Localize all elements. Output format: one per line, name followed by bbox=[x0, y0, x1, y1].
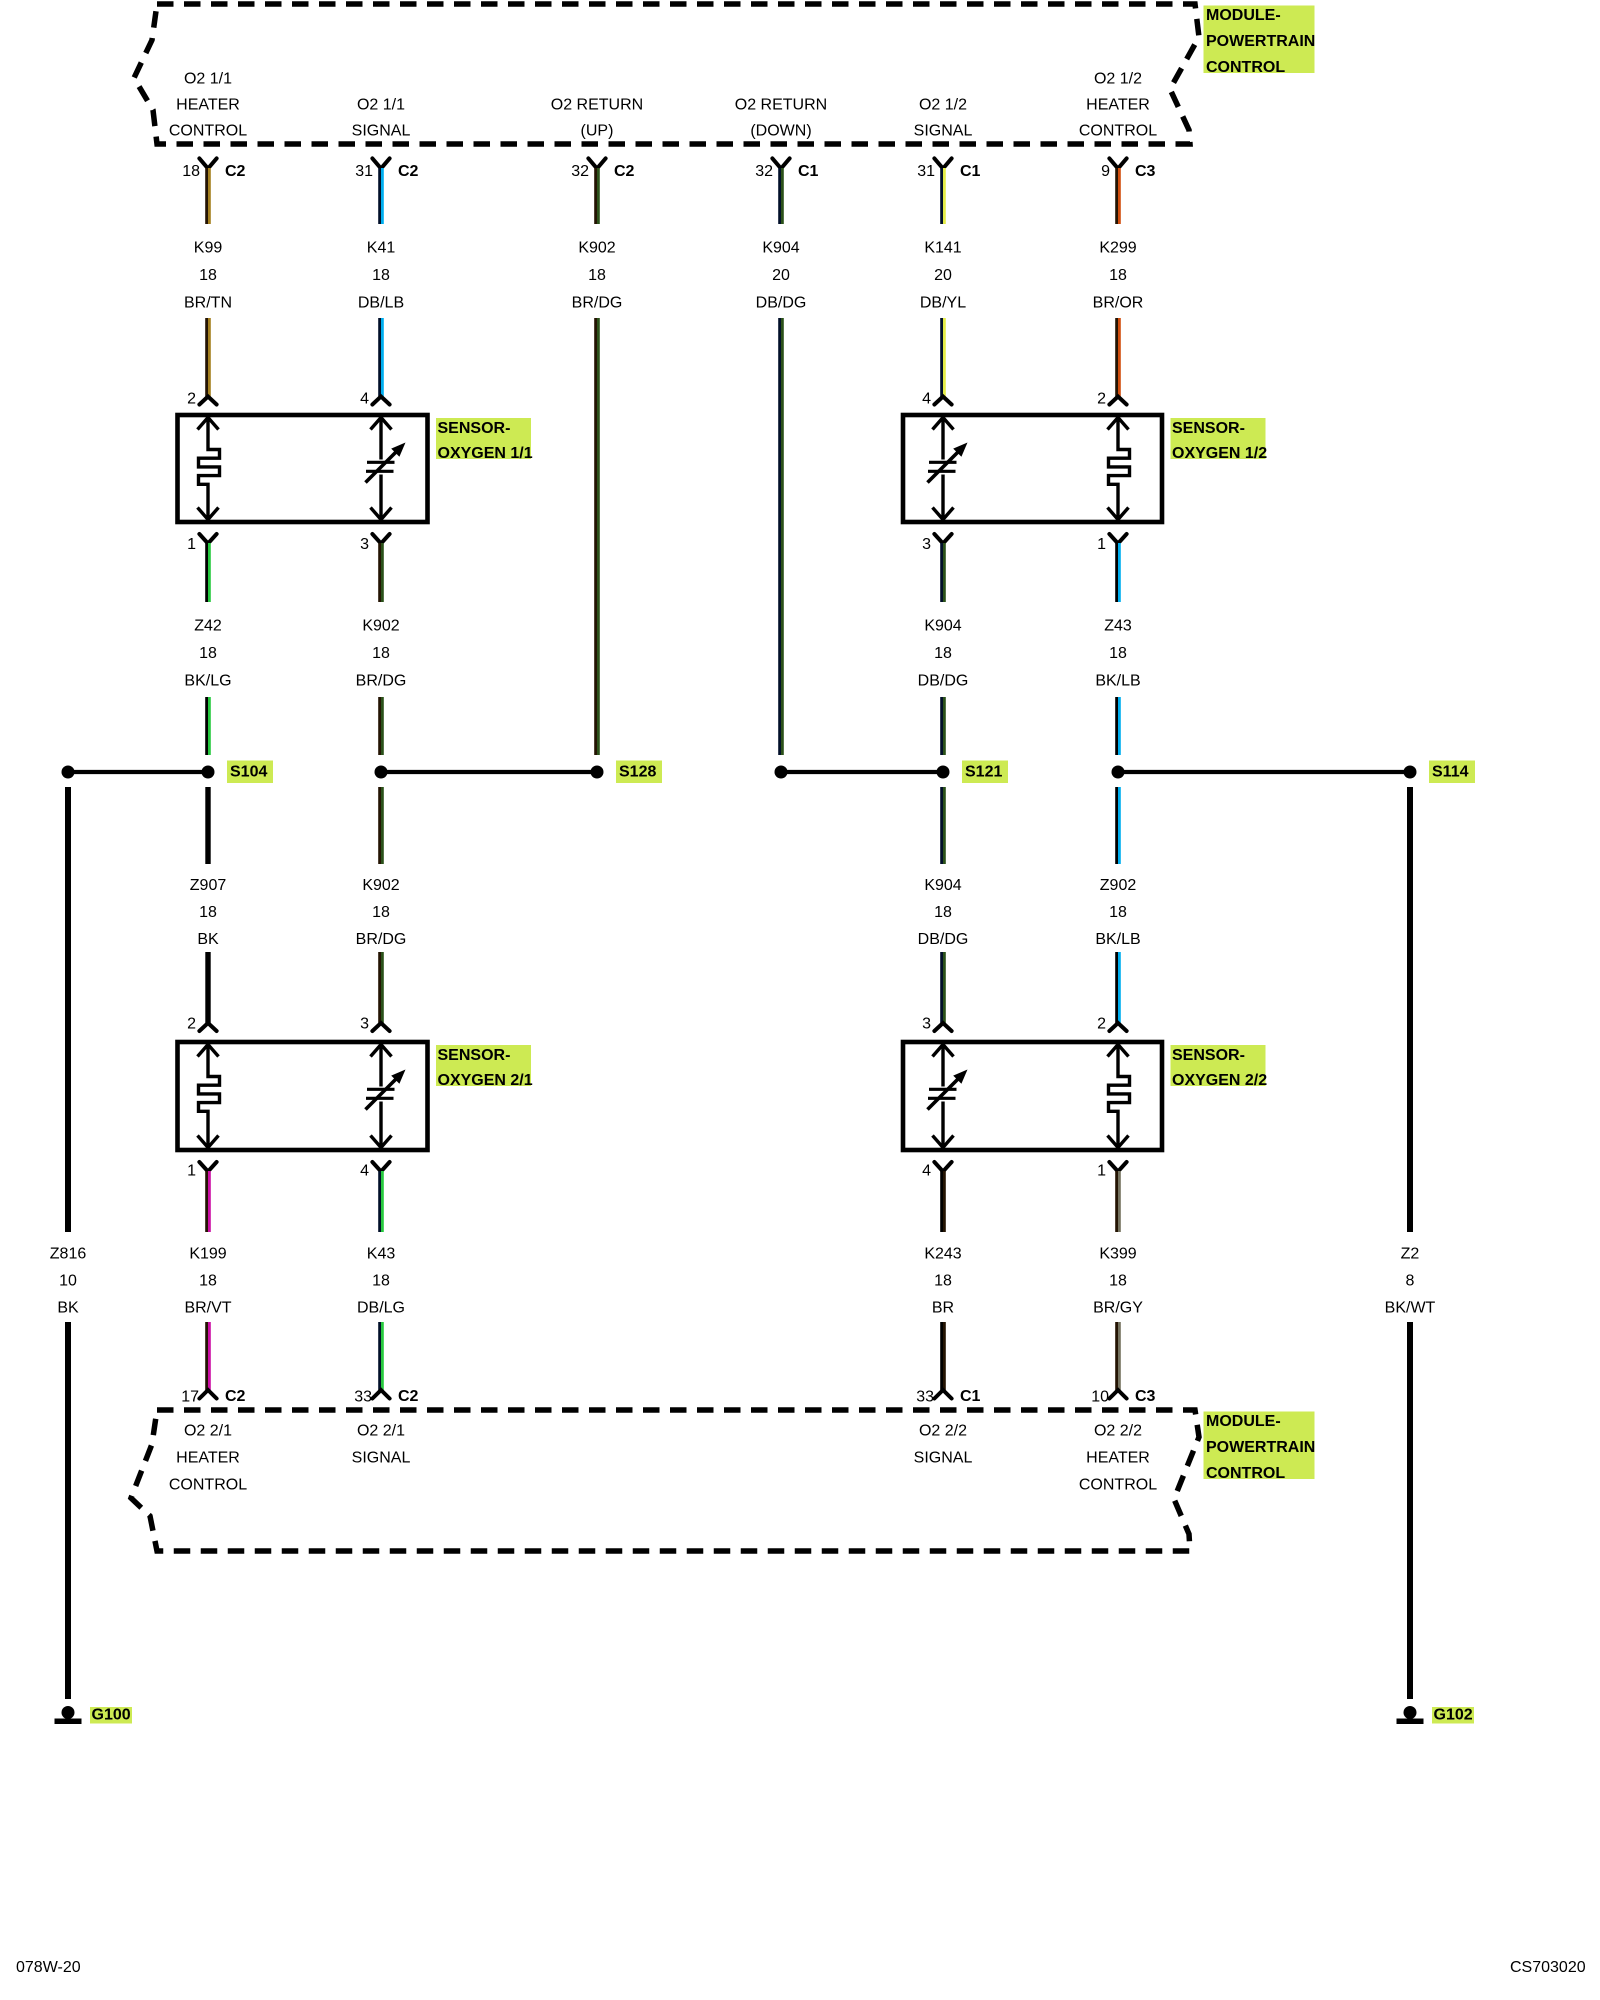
wire Z43 (label to splice S114 junction) bbox=[1115, 697, 1121, 755]
heater element inside SENSOR-OXYGEN 1/1 bbox=[198, 418, 220, 520]
svg-text:O2 2/2: O2 2/2 bbox=[919, 1423, 967, 1440]
svg-text:BR/DG: BR/DG bbox=[356, 931, 407, 948]
svg-text:K243: K243 bbox=[924, 1246, 961, 1263]
label: SENSOR-OXYGEN 1/1 (highlighted) bbox=[436, 418, 533, 462]
svg-text:BR/TN: BR/TN bbox=[184, 295, 232, 312]
pin 3 (bottom) of SENSOR-OXYGEN 1/1 bbox=[360, 534, 390, 553]
svg-text:MODULE-: MODULE- bbox=[1206, 7, 1281, 24]
pin 1 (bottom) of SENSOR-OXYGEN 1/2 bbox=[1097, 534, 1127, 553]
label: SENSOR-OXYGEN 2/2 (highlighted) bbox=[1171, 1045, 1268, 1089]
wire Z907 18 BK (S104 down to label) bbox=[205, 787, 210, 864]
svg-text:(UP): (UP) bbox=[581, 123, 614, 140]
value label: Z902 18 BK/LB bbox=[1095, 877, 1140, 948]
svg-text:C2: C2 bbox=[398, 1388, 419, 1405]
svg-text:18: 18 bbox=[934, 645, 952, 662]
wire Z907 (label to sensor O2 2/1 pin 2) bbox=[205, 952, 210, 1024]
svg-text:HEATER: HEATER bbox=[1086, 97, 1150, 114]
wire Z42 18 BK/LG stub (sensor 1/1 pin 1 to label) bbox=[205, 543, 211, 602]
junction dot: splice S121 bbox=[937, 766, 950, 779]
svg-text:SENSOR-: SENSOR- bbox=[1172, 1047, 1245, 1064]
wire Z2 8 BK/WT (S114 down to label) bbox=[1407, 787, 1413, 1232]
wire: splice bus S121 (horizontal) bbox=[781, 770, 943, 774]
svg-text:3: 3 bbox=[922, 536, 931, 553]
svg-text:Z816: Z816 bbox=[50, 1246, 87, 1263]
connector pin 10 C3 (bottom module, column 6) bbox=[1091, 1388, 1155, 1406]
svg-text:K904: K904 bbox=[924, 618, 961, 635]
pin 3 (bottom) of SENSOR-OXYGEN 1/2 bbox=[922, 534, 952, 553]
node label: bottom module pin function, column 2 bbox=[352, 1423, 411, 1467]
svg-text:DB/DG: DB/DG bbox=[918, 931, 969, 948]
svg-text:18: 18 bbox=[1109, 1273, 1127, 1290]
svg-text:33: 33 bbox=[916, 1389, 934, 1406]
value label: Z2 8 BK/WT bbox=[1385, 1246, 1436, 1317]
pin 4 (bottom) of SENSOR-OXYGEN 2/1 bbox=[360, 1162, 390, 1180]
wire K141 (label to sensor O2 1/2 pin 4) bbox=[940, 318, 946, 397]
junction dot on K902 at splice bus bbox=[375, 766, 388, 779]
wire Z42 (label to splice S104) bbox=[205, 697, 211, 755]
connector pin 9 C3 (top module, column 6) bbox=[1101, 158, 1155, 180]
svg-text:17: 17 bbox=[181, 1389, 199, 1406]
svg-text:18: 18 bbox=[1109, 904, 1127, 921]
wire K902 18 BR/DG stub (sensor 1/1 pin 3 to label) bbox=[378, 543, 384, 602]
svg-text:18: 18 bbox=[372, 267, 390, 284]
svg-text:BR: BR bbox=[932, 1300, 954, 1317]
svg-text:K141: K141 bbox=[924, 240, 961, 257]
svg-text:18: 18 bbox=[372, 904, 390, 921]
svg-text:Z902: Z902 bbox=[1100, 877, 1137, 894]
value label: K299 18 BR/OR bbox=[1093, 240, 1144, 312]
value label: K41 18 DB/LB bbox=[358, 240, 404, 312]
wire K99 18 BR/TN stub (pin 18 C2 to label) bbox=[205, 168, 211, 224]
svg-text:POWERTRAIN: POWERTRAIN bbox=[1206, 33, 1315, 50]
svg-text:C2: C2 bbox=[614, 163, 635, 180]
svg-text:K43: K43 bbox=[367, 1246, 396, 1263]
svg-text:1: 1 bbox=[1097, 536, 1106, 553]
wire Z816 10 BK (S104 down to label) bbox=[65, 787, 71, 1232]
svg-text:18: 18 bbox=[199, 904, 217, 921]
connector pin 32 C2 (top module, column 3) bbox=[571, 158, 634, 180]
wire: splice bus S128 (horizontal) bbox=[381, 770, 597, 774]
wire Z816 (label down to ground G100) bbox=[65, 1322, 71, 1699]
label: MODULE-POWERTRAIN CONTROL (bottom right, highlighted) bbox=[1204, 1412, 1316, 1483]
svg-text:1: 1 bbox=[187, 536, 196, 553]
svg-text:S114: S114 bbox=[1432, 764, 1469, 781]
svg-text:18: 18 bbox=[934, 1273, 952, 1290]
svg-text:33: 33 bbox=[354, 1389, 372, 1406]
svg-text:Z42: Z42 bbox=[194, 618, 222, 635]
connector pin 33 C2 (bottom module, column 2) bbox=[354, 1388, 418, 1406]
junction dot: splice S104 bbox=[202, 766, 215, 779]
wire K902 (label down to splice S128) bbox=[594, 318, 600, 755]
svg-text:K902: K902 bbox=[362, 618, 399, 635]
svg-text:HEATER: HEATER bbox=[1086, 1450, 1150, 1467]
node G102 label (highlighted) bbox=[1432, 1707, 1474, 1724]
junction dot at Z816 / S104 bbox=[62, 766, 75, 779]
wire K399 (label to pin 10 C3) bbox=[1115, 1322, 1121, 1391]
wire K243 (label to pin 33 C1) bbox=[940, 1322, 946, 1391]
wire K902 18 BR/DG stub (pin 32 C2 to label) bbox=[594, 168, 600, 224]
svg-text:S128: S128 bbox=[619, 764, 656, 781]
connector pin 17 C2 (bottom module, column 1) bbox=[181, 1388, 245, 1406]
label: MODULE-POWERTRAIN CONTROL (top right, highlighted) bbox=[1204, 6, 1316, 77]
svg-text:C1: C1 bbox=[960, 1388, 981, 1405]
svg-text:3: 3 bbox=[360, 1016, 369, 1033]
node label: bottom module pin function, column 6 bbox=[1079, 1423, 1157, 1494]
connector pin 18 C2 (top module, column 1) bbox=[182, 158, 245, 180]
svg-text:BR/DG: BR/DG bbox=[572, 295, 623, 312]
svg-text:SENSOR-: SENSOR- bbox=[438, 420, 511, 437]
svg-text:CS703020: CS703020 bbox=[1510, 1959, 1586, 1976]
svg-text:18: 18 bbox=[182, 163, 200, 180]
sensor B4: SENSOR-OXYGEN 2/2 (box) bbox=[903, 1042, 1162, 1150]
pin 2 (top) of SENSOR-OXYGEN 2/2 bbox=[1097, 1016, 1127, 1033]
svg-text:1: 1 bbox=[1097, 1163, 1106, 1180]
svg-text:BK/LB: BK/LB bbox=[1095, 673, 1140, 690]
node label: top module pin function, column 3 bbox=[551, 97, 643, 140]
svg-text:(DOWN): (DOWN) bbox=[750, 123, 811, 140]
value label: K902 18 BR/DG bbox=[356, 618, 407, 690]
svg-text:10: 10 bbox=[1091, 1389, 1109, 1406]
pin 2 (top) of SENSOR-OXYGEN 1/2 bbox=[1097, 391, 1127, 408]
wire K199 (label to pin 17 C2) bbox=[205, 1322, 211, 1391]
value label: K99 18 BR/TN bbox=[184, 240, 232, 312]
svg-text:C2: C2 bbox=[225, 1388, 246, 1405]
value label: K904 20 DB/DG bbox=[756, 240, 807, 312]
node S104 label (highlighted) bbox=[227, 761, 273, 784]
svg-text:CONTROL: CONTROL bbox=[1079, 1477, 1157, 1494]
wire K904 20 DB/DG stub (pin 32 C1 to label) bbox=[778, 168, 784, 224]
node label: bottom module pin function, column 1 bbox=[169, 1423, 247, 1494]
junction dot on K904 at splice bus bbox=[775, 766, 788, 779]
value label: Z816 10 BK bbox=[50, 1246, 87, 1317]
sensor B3: SENSOR-OXYGEN 2/1 (box) bbox=[178, 1042, 428, 1150]
svg-text:18: 18 bbox=[199, 645, 217, 662]
svg-text:32: 32 bbox=[755, 163, 773, 180]
svg-text:G102: G102 bbox=[1434, 1707, 1473, 1724]
svg-text:SIGNAL: SIGNAL bbox=[352, 123, 411, 140]
node label: top module pin function, column 4 bbox=[735, 97, 827, 140]
variable sense element inside SENSOR-OXYGEN 1/2 bbox=[928, 418, 968, 520]
svg-text:18: 18 bbox=[588, 267, 606, 284]
wire K299 (label to sensor O2 1/2 pin 2) bbox=[1115, 318, 1121, 397]
junction dot: splice S114 bbox=[1404, 766, 1417, 779]
wire K299 18 BR/OR stub (pin 9 C3 to label) bbox=[1115, 168, 1121, 224]
svg-text:BK: BK bbox=[197, 931, 219, 948]
svg-text:31: 31 bbox=[355, 163, 373, 180]
svg-text:3: 3 bbox=[360, 536, 369, 553]
svg-text:18: 18 bbox=[199, 1273, 217, 1290]
svg-text:O2 RETURN: O2 RETURN bbox=[551, 97, 643, 114]
value label: K399 18 BR/GY bbox=[1093, 1246, 1143, 1317]
wire K199 18 BR/VT stub (sensor 2/1 pin 1 to label) bbox=[205, 1171, 211, 1232]
node label: top module pin function, column 6 bbox=[1079, 71, 1157, 140]
wire Z902 18 BK/LB (S114 junction down to label) bbox=[1115, 787, 1121, 864]
svg-text:HEATER: HEATER bbox=[176, 1450, 240, 1467]
svg-text:C1: C1 bbox=[960, 163, 981, 180]
svg-text:2: 2 bbox=[187, 391, 196, 408]
svg-text:K299: K299 bbox=[1099, 240, 1136, 257]
svg-text:SIGNAL: SIGNAL bbox=[352, 1450, 411, 1467]
svg-text:SIGNAL: SIGNAL bbox=[914, 123, 973, 140]
svg-text:3: 3 bbox=[922, 1016, 931, 1033]
svg-text:10: 10 bbox=[59, 1273, 77, 1290]
wire K902 18 BR/DG (S128 junction down to label) bbox=[378, 787, 384, 864]
svg-text:BR/OR: BR/OR bbox=[1093, 295, 1144, 312]
svg-text:OXYGEN 1/2: OXYGEN 1/2 bbox=[1172, 445, 1267, 462]
svg-text:4: 4 bbox=[360, 391, 369, 408]
value label: K902 18 BR/DG (lower) bbox=[356, 877, 407, 948]
svg-text:O2 2/1: O2 2/1 bbox=[184, 1423, 232, 1440]
svg-text:DB/LG: DB/LG bbox=[357, 1300, 405, 1317]
wire Z2 (label down to ground G102) bbox=[1407, 1322, 1413, 1699]
svg-text:4: 4 bbox=[360, 1163, 369, 1180]
svg-text:K199: K199 bbox=[189, 1246, 226, 1263]
pin 3 (top) of SENSOR-OXYGEN 2/2 bbox=[922, 1016, 952, 1033]
variable sense element inside SENSOR-OXYGEN 1/1 bbox=[366, 418, 406, 520]
svg-text:O2 2/1: O2 2/1 bbox=[357, 1423, 405, 1440]
value label: K904 18 DB/DG (lower) bbox=[918, 877, 969, 948]
heater element inside SENSOR-OXYGEN 2/2 bbox=[1108, 1045, 1130, 1148]
svg-text:MODULE-: MODULE- bbox=[1206, 1413, 1281, 1430]
svg-text:BR/GY: BR/GY bbox=[1093, 1300, 1143, 1317]
svg-text:20: 20 bbox=[934, 267, 952, 284]
svg-text:BK/LG: BK/LG bbox=[184, 673, 231, 690]
svg-text:18: 18 bbox=[372, 645, 390, 662]
svg-text:C3: C3 bbox=[1135, 163, 1156, 180]
svg-text:K904: K904 bbox=[762, 240, 799, 257]
svg-text:O2 2/2: O2 2/2 bbox=[1094, 1423, 1142, 1440]
node label: top module pin function, column 5 bbox=[914, 97, 973, 140]
junction dot: splice S128 bbox=[591, 766, 604, 779]
svg-text:18: 18 bbox=[1109, 267, 1127, 284]
value label: Z43 18 BK/LB bbox=[1095, 618, 1140, 690]
svg-text:CONTROL: CONTROL bbox=[169, 123, 247, 140]
svg-text:O2 1/2: O2 1/2 bbox=[919, 97, 967, 114]
svg-text:18: 18 bbox=[372, 1273, 390, 1290]
connector pin 31 C2 (top module, column 2) bbox=[355, 158, 418, 180]
wire: splice bus S114 (horizontal) bbox=[1118, 770, 1410, 774]
svg-text:Z2: Z2 bbox=[1401, 1246, 1420, 1263]
value label: K902 18 BR/DG bbox=[572, 240, 623, 312]
value label: Z907 18 BK bbox=[190, 877, 227, 948]
wire K904 (label down to splice S121) bbox=[778, 318, 784, 755]
svg-text:SENSOR-: SENSOR- bbox=[1172, 420, 1245, 437]
junction dot on Z43 at splice bus bbox=[1112, 766, 1125, 779]
svg-text:CONTROL: CONTROL bbox=[1206, 59, 1285, 76]
pin 4 (top) of SENSOR-OXYGEN 1/2 bbox=[922, 391, 952, 408]
variable sense element inside SENSOR-OXYGEN 2/2 bbox=[928, 1045, 968, 1148]
pin 4 (top) of SENSOR-OXYGEN 1/1 bbox=[360, 391, 390, 408]
pin 4 (bottom) of SENSOR-OXYGEN 2/2 bbox=[922, 1162, 952, 1180]
pin 1 (bottom) of SENSOR-OXYGEN 1/1 bbox=[187, 534, 217, 553]
svg-text:DB/YL: DB/YL bbox=[920, 295, 966, 312]
svg-text:32: 32 bbox=[571, 163, 589, 180]
svg-text:DB/DG: DB/DG bbox=[918, 673, 969, 690]
connector pin 33 C1 (bottom module, column 5) bbox=[916, 1388, 980, 1406]
wire K904 18 DB/DG stub (sensor 1/2 pin 3 to label) bbox=[940, 543, 946, 602]
wire K243 18 BR stub (sensor 2/2 pin 4 to label) bbox=[940, 1171, 946, 1232]
svg-text:2: 2 bbox=[1097, 391, 1106, 408]
svg-text:BK/LB: BK/LB bbox=[1095, 931, 1140, 948]
variable sense element inside SENSOR-OXYGEN 2/1 bbox=[366, 1045, 406, 1148]
node label: top module pin function, column 2 bbox=[352, 97, 411, 140]
value label: K141 20 DB/YL bbox=[920, 240, 966, 312]
svg-text:O2 1/2: O2 1/2 bbox=[1094, 71, 1142, 88]
wire K41 (label to sensor O2 1/1 pin 4) bbox=[378, 318, 384, 397]
label: SENSOR-OXYGEN 2/1 (highlighted) bbox=[436, 1045, 533, 1089]
pin 2 (top) of SENSOR-OXYGEN 2/1 bbox=[187, 1016, 217, 1033]
value label: K199 18 BR/VT bbox=[184, 1246, 231, 1317]
svg-text:O2 RETURN: O2 RETURN bbox=[735, 97, 827, 114]
ground G102 symbol bbox=[1397, 1706, 1424, 1724]
svg-text:8: 8 bbox=[1406, 1273, 1415, 1290]
node S114 label (highlighted) bbox=[1429, 761, 1475, 784]
pin 1 (bottom) of SENSOR-OXYGEN 2/2 bbox=[1097, 1162, 1127, 1180]
svg-text:BR/VT: BR/VT bbox=[184, 1300, 231, 1317]
wire Z902 (label to sensor O2 2/2 pin 2) bbox=[1115, 952, 1121, 1024]
svg-text:O2 1/1: O2 1/1 bbox=[357, 97, 405, 114]
module U1: MODULE-POWERTRAIN CONTROL (top connector block, dashed outline) bbox=[134, 4, 1199, 144]
module U1: MODULE-POWERTRAIN CONTROL (bottom connector block, dashed outline) bbox=[131, 1410, 1199, 1551]
svg-text:K99: K99 bbox=[194, 240, 223, 257]
svg-text:CONTROL: CONTROL bbox=[169, 1477, 247, 1494]
svg-text:DB/DG: DB/DG bbox=[756, 295, 807, 312]
wire K399 18 BR/GY stub (sensor 2/2 pin 1 to label) bbox=[1115, 1171, 1121, 1232]
ground G100 symbol bbox=[55, 1706, 82, 1724]
svg-text:BR/DG: BR/DG bbox=[356, 673, 407, 690]
svg-text:CONTROL: CONTROL bbox=[1206, 1465, 1285, 1482]
svg-text:BK: BK bbox=[57, 1300, 79, 1317]
node G100 label (highlighted) bbox=[90, 1707, 132, 1724]
svg-text:S121: S121 bbox=[965, 764, 1002, 781]
svg-text:DB/LB: DB/LB bbox=[358, 295, 404, 312]
svg-text:K904: K904 bbox=[924, 877, 961, 894]
svg-text:OXYGEN 2/1: OXYGEN 2/1 bbox=[438, 1072, 533, 1089]
heater element inside SENSOR-OXYGEN 2/1 bbox=[198, 1045, 220, 1148]
value label: K904 18 DB/DG bbox=[918, 618, 969, 690]
svg-text:CONTROL: CONTROL bbox=[1079, 123, 1157, 140]
sensor B2: SENSOR-OXYGEN 1/2 (box) bbox=[903, 415, 1162, 522]
svg-text:C2: C2 bbox=[225, 163, 246, 180]
wire K904 (label to sensor O2 2/2 pin 3) bbox=[940, 952, 946, 1024]
pin 1 (bottom) of SENSOR-OXYGEN 2/1 bbox=[187, 1162, 217, 1180]
svg-text:BK/WT: BK/WT bbox=[1385, 1300, 1436, 1317]
svg-text:SIGNAL: SIGNAL bbox=[914, 1450, 973, 1467]
svg-text:20: 20 bbox=[772, 267, 790, 284]
node S121 label (highlighted) bbox=[962, 761, 1008, 784]
svg-text:18: 18 bbox=[1109, 645, 1127, 662]
sensor B1: SENSOR-OXYGEN 1/1 (box) bbox=[178, 415, 428, 522]
svg-text:K902: K902 bbox=[578, 240, 615, 257]
svg-text:078W-20: 078W-20 bbox=[16, 1959, 81, 1976]
svg-text:C2: C2 bbox=[398, 163, 419, 180]
svg-text:18: 18 bbox=[934, 904, 952, 921]
svg-text:G100: G100 bbox=[92, 1707, 131, 1724]
wire K904 (label to splice S121 junction) bbox=[940, 697, 946, 755]
node label: bottom module pin function, column 5 bbox=[914, 1423, 973, 1467]
svg-text:1: 1 bbox=[187, 1163, 196, 1180]
svg-text:Z43: Z43 bbox=[1104, 618, 1132, 635]
svg-text:OXYGEN 1/1: OXYGEN 1/1 bbox=[438, 445, 533, 462]
svg-text:K399: K399 bbox=[1099, 1246, 1136, 1263]
svg-text:K41: K41 bbox=[367, 240, 396, 257]
label: SENSOR-OXYGEN 1/2 (highlighted) bbox=[1171, 418, 1268, 462]
svg-text:S104: S104 bbox=[230, 764, 267, 781]
svg-text:K902: K902 bbox=[362, 877, 399, 894]
wire K99 (label to sensor O2 1/1 pin 2) bbox=[205, 318, 211, 397]
svg-text:4: 4 bbox=[922, 391, 931, 408]
wire K41 18 DB/LB stub (pin 31 C2 to label) bbox=[378, 168, 384, 224]
heater element inside SENSOR-OXYGEN 1/2 bbox=[1108, 418, 1130, 520]
wire K141 20 DB/YL stub (pin 31 C1 to label) bbox=[940, 168, 946, 224]
connector pin 31 C1 (top module, column 5) bbox=[917, 158, 980, 180]
connector pin 32 C1 (top module, column 4) bbox=[755, 158, 818, 180]
value label: K243 18 BR bbox=[924, 1246, 961, 1317]
node S128 label (highlighted) bbox=[616, 761, 662, 784]
pin 2 (top) of SENSOR-OXYGEN 1/1 bbox=[187, 391, 217, 408]
svg-text:2: 2 bbox=[1097, 1016, 1106, 1033]
svg-text:18: 18 bbox=[199, 267, 217, 284]
node label: top module pin function, column 1 bbox=[169, 71, 247, 140]
svg-text:O2 1/1: O2 1/1 bbox=[184, 71, 232, 88]
svg-text:Z907: Z907 bbox=[190, 877, 227, 894]
wire K43 (label to pin 33 C2) bbox=[378, 1322, 384, 1391]
svg-text:4: 4 bbox=[922, 1163, 931, 1180]
value label: K43 18 DB/LG bbox=[357, 1246, 405, 1317]
svg-text:C1: C1 bbox=[798, 163, 819, 180]
wire K902 (label to splice S128 junction) bbox=[378, 697, 384, 755]
svg-text:9: 9 bbox=[1101, 163, 1110, 180]
wire K43 18 DB/LG stub (sensor 2/1 pin 4 to label) bbox=[378, 1171, 384, 1232]
svg-text:SENSOR-: SENSOR- bbox=[438, 1047, 511, 1064]
svg-text:HEATER: HEATER bbox=[176, 97, 240, 114]
wire Z43 18 BK/LB stub (sensor 1/2 pin 1 to label) bbox=[1115, 543, 1121, 602]
wire: splice bus S104 (horizontal) bbox=[68, 770, 208, 774]
svg-text:31: 31 bbox=[917, 163, 935, 180]
pin 3 (top) of SENSOR-OXYGEN 2/1 bbox=[360, 1016, 390, 1033]
svg-text:OXYGEN 2/2: OXYGEN 2/2 bbox=[1172, 1072, 1267, 1089]
wire K902 (label to sensor O2 2/1 pin 3) bbox=[378, 952, 384, 1024]
value label: Z42 18 BK/LG bbox=[184, 618, 231, 690]
wire K904 18 DB/DG (S121 junction down to label) bbox=[940, 787, 946, 864]
svg-text:2: 2 bbox=[187, 1016, 196, 1033]
svg-text:POWERTRAIN: POWERTRAIN bbox=[1206, 1439, 1315, 1456]
svg-text:C3: C3 bbox=[1135, 1388, 1156, 1405]
